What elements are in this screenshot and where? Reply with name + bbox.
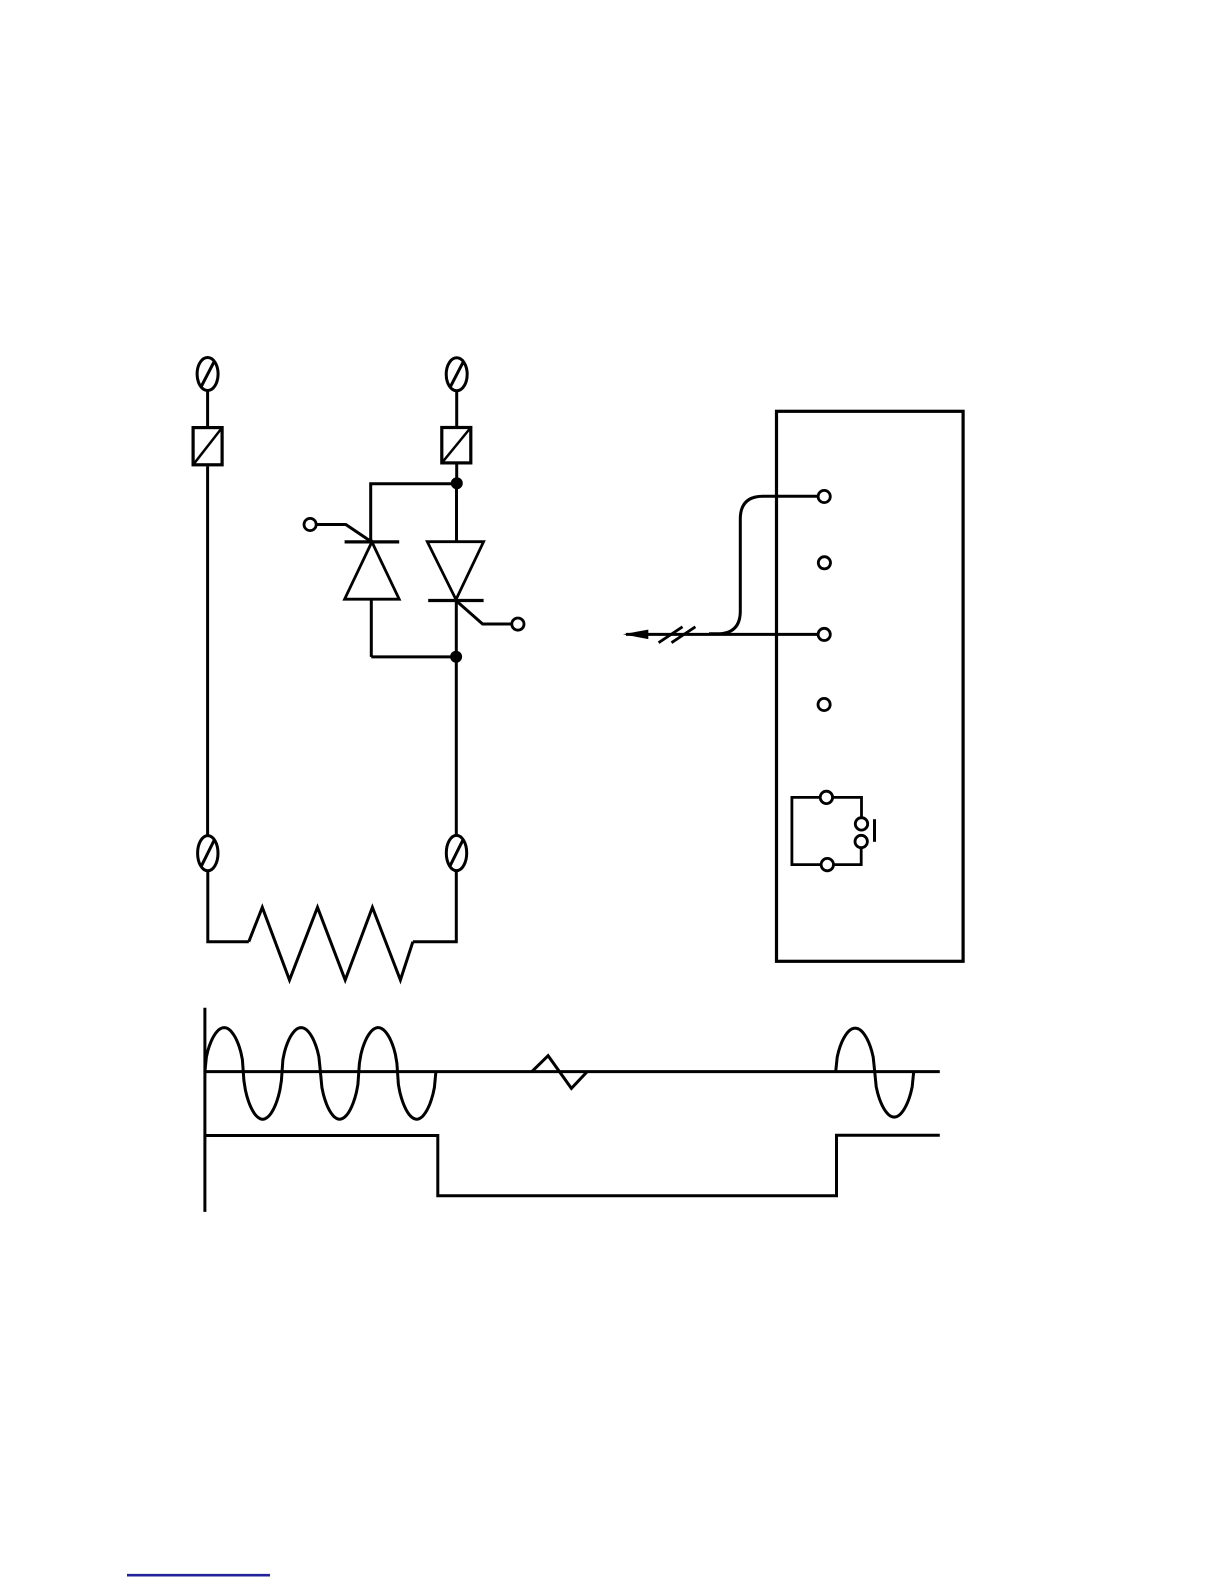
node B (bottom junction dot): [450, 651, 462, 663]
terminal 1: [818, 490, 830, 502]
terminal X4 (bottom-right screw terminal): [446, 835, 466, 870]
terminal 3: [818, 628, 830, 640]
wire terminal 1 cable drop: [709, 496, 818, 634]
AC waveform burst 1: [205, 1028, 436, 1120]
gate terminal G2: [456, 601, 524, 630]
terminal X2 (top-right screw terminal): [446, 358, 467, 391]
wire terminal X3 down to load: [208, 871, 249, 942]
node A (top junction dot): [451, 477, 463, 489]
wire node B to terminal X4: [455, 601, 458, 837]
wire fuse F1 to bottom-left terminal: [206, 466, 209, 836]
waveform axis (vertical): [203, 1008, 206, 1212]
waveform zero line: [205, 1070, 940, 1073]
wire bottom branch to node B: [371, 655, 456, 658]
wire top-right terminal to fuse F2: [455, 391, 458, 428]
wire fuse F2 to node A: [455, 464, 458, 483]
time-axis break mark: [532, 1056, 587, 1089]
wire SCR1 anode to bottom branch: [370, 599, 373, 657]
terminal X3 (bottom-left screw terminal): [198, 836, 218, 871]
fuse F1: [193, 428, 222, 465]
wire top-left terminal to fuse F1: [206, 391, 209, 428]
footer link rule: [127, 1574, 270, 1577]
terminal 2: [818, 557, 830, 569]
thyristor SCR2 (right, pointing down): [427, 542, 483, 601]
pushbutton terminal top: [820, 791, 832, 803]
pushbutton terminal bottom: [821, 858, 833, 870]
arrowhead (cable to gates): [623, 630, 648, 640]
pushbutton contact upper: [855, 818, 867, 830]
resistor load RL: [249, 907, 413, 980]
pushbutton contact lower: [855, 835, 867, 847]
terminal X1 (top-left screw terminal): [197, 358, 218, 391]
controller box U1: [777, 411, 964, 961]
thyristor SCR1 (left, pointing up): [345, 542, 400, 599]
AC waveform burst 2: [836, 1028, 914, 1117]
terminal 4: [818, 698, 830, 710]
gate signal square wave: [205, 1135, 940, 1196]
pushbutton actuator bar: [873, 819, 876, 842]
fuse F2: [442, 428, 471, 463]
wire terminal 3 cable line: [626, 633, 818, 636]
wire load to terminal X4: [413, 871, 456, 942]
wire node A to SCR1 branch: [371, 484, 457, 542]
gate terminal G1: [304, 518, 372, 542]
cable double-slash mark: [659, 627, 696, 643]
pushbutton S1 wiring loop: [792, 797, 862, 864]
wire node A to SCR2 anode: [455, 483, 458, 542]
